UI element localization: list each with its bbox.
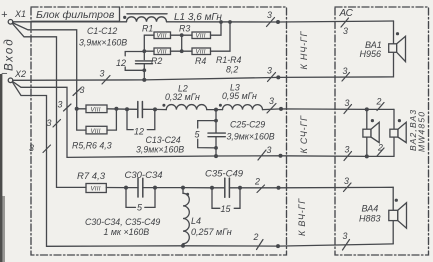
slash mid return AC side: [344, 152, 352, 161]
AC block border (dash-dot rectangle): [335, 7, 429, 255]
svg-text:С13-С24: С13-С24: [146, 135, 181, 145]
node: R network junctions: [180, 33, 184, 37]
wire: C30 leads: [126, 187, 138, 189]
svg-text:VIII: VIII: [157, 34, 167, 40]
wire: to L2: [155, 108, 166, 110]
svg-text:2: 2: [253, 232, 259, 242]
resistor R2: [154, 48, 171, 55]
svg-text:Блок фильтров: Блок фильтров: [36, 9, 115, 21]
resistor R4: [192, 48, 211, 55]
resistor R1: [154, 32, 171, 39]
slash BA2-BA3 top: [377, 103, 384, 111]
svg-text:3: 3: [47, 118, 52, 128]
svg-text:3,9мк×160В: 3,9мк×160В: [136, 145, 184, 155]
slash mid return filter side: [258, 150, 266, 160]
svg-text:VIII: VIII: [91, 187, 101, 193]
node: mid row: [75, 107, 79, 111]
svg-text:0,257 мГн: 0,257 мГн: [191, 227, 232, 237]
slash on branch B: [73, 88, 81, 96]
svg-text:1 мк ×160В: 1 мк ×160В: [104, 227, 150, 237]
svg-text:С35-С49: С35-С49: [205, 169, 244, 180]
wire: R4 right up to rail: [211, 22, 231, 51]
capacitor C25-C29 plates: [208, 132, 225, 134]
label box around 'Блок фильтров': [31, 7, 120, 21]
bracket count C13-C24: [127, 109, 133, 129]
wire: R2 left: [144, 50, 154, 52]
svg-text:VIII: VIII: [196, 34, 206, 40]
svg-text:С30-С34, С35-С49: С30-С34, С35-С49: [85, 217, 160, 227]
inductor L1: [127, 17, 167, 22]
bracket count C1-C12: [125, 52, 144, 56]
svg-text:15: 15: [221, 204, 232, 214]
svg-text:12: 12: [116, 58, 126, 68]
svg-text:Н956: Н956: [360, 49, 382, 59]
wire: R6 loop left: [77, 109, 86, 130]
capacitor C25-C29 bottom lead: [215, 137, 217, 156]
slash on X2 branch2: [64, 104, 72, 111]
slash HF top AC side: [344, 183, 352, 192]
node: C25-C29: [214, 119, 218, 123]
slash HF top filter side: [257, 185, 265, 193]
svg-text:С30-С34: С30-С34: [125, 170, 163, 181]
svg-text:3: 3: [345, 145, 350, 155]
scan artifact bottom left blob: [0, 196, 5, 262]
inductor L4 (vertical shunt): [183, 188, 189, 246]
wire: BA1 feed vertical: [393, 21, 395, 44]
speaker BA3: [393, 109, 395, 129]
wire: BA4 return vertical: [392, 221, 394, 244]
svg-text:3: 3: [269, 96, 274, 106]
wire: L3 to border: [263, 108, 395, 111]
slash mid top AC side: [344, 105, 352, 114]
svg-text:2: 2: [254, 177, 260, 187]
svg-text:3: 3: [343, 26, 348, 36]
capacitor C13-C24 plates: [137, 102, 139, 118]
capacitor C1-C12 bottom lead: [143, 64, 145, 80]
slash BA2-BA3 bottom: [377, 148, 384, 156]
svg-text:3: 3: [267, 66, 272, 76]
svg-text:VIII: VIII: [157, 50, 167, 56]
wire: to C35: [183, 187, 212, 189]
resistor power marks: [91, 34, 206, 193]
slash top rail filter side: [267, 18, 275, 27]
resistor R3: [192, 32, 211, 39]
wire: L2 to L3: [207, 109, 223, 111]
wire: C35 leads: [212, 187, 225, 189]
slash on X2 branch3: [43, 145, 51, 153]
scan artifact left edge: [0, 74, 2, 262]
slash LF return AC side: [342, 73, 350, 82]
bracket count C25-C29: [198, 121, 216, 128]
capacitor C25-C29 shunt top lead: [215, 110, 217, 133]
wire: R3 right up to rail: [211, 22, 222, 35]
wire: R1R3-R2R4 vertical tie: [181, 35, 183, 51]
svg-text:R2: R2: [151, 56, 162, 66]
resistor R7: [86, 184, 106, 193]
L1 winding-start dot: [123, 16, 126, 19]
svg-text:VIII: VIII: [91, 129, 101, 135]
svg-text:С25-С29: С25-С29: [230, 120, 265, 130]
svg-text:К НЧ-ГГ: К НЧ-ГГ: [299, 30, 309, 69]
wire: X1 branch B to mid filter: [13, 23, 77, 109]
svg-text:+: +: [1, 9, 8, 21]
node: HF row: [124, 186, 128, 190]
capacitor C30-C34 plates: [137, 178, 139, 197]
inductor L1 core line: [127, 13, 167, 15]
wire: R1 left to column: [144, 35, 154, 51]
svg-text:3: 3: [80, 85, 85, 95]
wire: R5 right: [107, 108, 127, 110]
svg-text:Н883: Н883: [359, 214, 381, 224]
slash mid top filter side: [267, 104, 276, 114]
svg-text:X1: X1: [14, 9, 26, 19]
wire: R1-R3 link: [171, 34, 193, 36]
svg-text:2: 2: [376, 97, 382, 107]
svg-text:3: 3: [345, 98, 350, 108]
svg-text:R4: R4: [195, 56, 206, 66]
svg-text:2: 2: [377, 143, 383, 153]
svg-text:3: 3: [267, 10, 272, 20]
svg-text:R3: R3: [179, 24, 190, 34]
svg-text:L4: L4: [191, 216, 201, 226]
wire: R7 to C30: [106, 187, 126, 189]
svg-text:К ВЧ-ГГ: К ВЧ-ГГ: [297, 198, 307, 236]
inductor L2: [166, 105, 206, 110]
svg-text:ВА4: ВА4: [362, 204, 379, 214]
speaker BA2: [366, 109, 368, 129]
slash on X2 rail: [102, 76, 110, 85]
svg-text:R7 4,3: R7 4,3: [77, 171, 106, 182]
capacitor C1-C12 top lead: [143, 51, 145, 59]
bracket count C30-C34: [126, 188, 136, 208]
L3 winding-start dot: [219, 104, 222, 107]
svg-text:3,9мк×160В: 3,9мк×160В: [79, 38, 127, 48]
node: rail junctions: [219, 20, 223, 24]
svg-text:0,95 мГн: 0,95 мГн: [222, 91, 257, 101]
wire: top rail L1 to BA1 corner: [167, 21, 394, 22]
node: C35: [210, 186, 214, 190]
slash on branch C: [53, 120, 61, 128]
wire count digits: [29, 10, 383, 242]
svg-text:R5,R6 4,3: R5,R6 4,3: [72, 141, 112, 151]
svg-text:3: 3: [343, 66, 348, 76]
terminal X1: [8, 20, 13, 25]
filter block border (dash-dot rectangle): [31, 7, 287, 255]
L4 winding-start dot: [186, 193, 189, 196]
slash bottom rail filter side: [257, 240, 264, 250]
wire: R2-R4 link: [171, 50, 193, 52]
svg-text:8,2: 8,2: [226, 65, 238, 75]
resistor R6: [86, 126, 107, 134]
svg-text:X2: X2: [14, 69, 26, 79]
node: mid out: [214, 108, 218, 112]
wire: top rail X1 to L1: [13, 21, 127, 23]
wire: BA4 feed vertical: [392, 187, 394, 210]
svg-text:L1 3,6 мГн: L1 3,6 мГн: [174, 12, 222, 23]
svg-text:К СЧ-ГГ: К СЧ-ГГ: [299, 115, 309, 154]
wire: X2 branch 3 to bottom rail: [13, 83, 393, 247]
svg-text:0,32 мГн: 0,32 мГн: [165, 92, 200, 102]
svg-text:12: 12: [134, 127, 144, 137]
svg-text:С1-С12: С1-С12: [87, 26, 117, 36]
svg-text:3: 3: [343, 231, 348, 241]
svg-text:3: 3: [100, 69, 105, 79]
svg-text:3: 3: [29, 143, 34, 153]
slash mark group-count wires: [43, 18, 384, 251]
wire: R5 left: [77, 108, 86, 110]
slash LF return filter side: [268, 73, 276, 82]
svg-text:R1: R1: [142, 24, 153, 34]
svg-text:3: 3: [344, 176, 349, 186]
wire: X1 branch C to HF filter: [13, 24, 86, 187]
slash top rail AC side: [341, 18, 349, 27]
slash bottom rail AC side: [343, 240, 350, 251]
svg-text:R1-R4: R1-R4: [216, 55, 242, 65]
L2 winding-start dot: [162, 104, 165, 107]
wire: BA1 return: [13, 52, 394, 80]
terminal X2: [8, 78, 13, 83]
svg-text:3,9мк×160В: 3,9мк×160В: [227, 132, 275, 142]
wire: X2 branch 2 to mid return rail: [13, 82, 394, 158]
capacitor C35-C49 plates: [224, 178, 226, 197]
svg-text:MW4850: MW4850: [417, 111, 427, 152]
svg-text:VIII: VIII: [196, 50, 206, 56]
svg-text:Вход: Вход: [4, 37, 16, 71]
wire: C13-C24 leads: [127, 108, 138, 110]
wire: R6 loop right: [107, 109, 116, 130]
resistor R5: [86, 105, 107, 113]
svg-text:3: 3: [58, 100, 63, 110]
speaker BA4: [389, 210, 398, 220]
capacitor C1-C12 plates: [136, 60, 153, 62]
node: L4 bottom: [181, 244, 185, 248]
speaker BA1: [389, 44, 397, 53]
svg-text:АС: АС: [339, 8, 354, 19]
bracket count C35-C49: [212, 188, 220, 209]
inductor L3: [223, 105, 263, 110]
svg-text:VIII: VIII: [91, 108, 101, 114]
svg-text:3: 3: [267, 145, 272, 155]
